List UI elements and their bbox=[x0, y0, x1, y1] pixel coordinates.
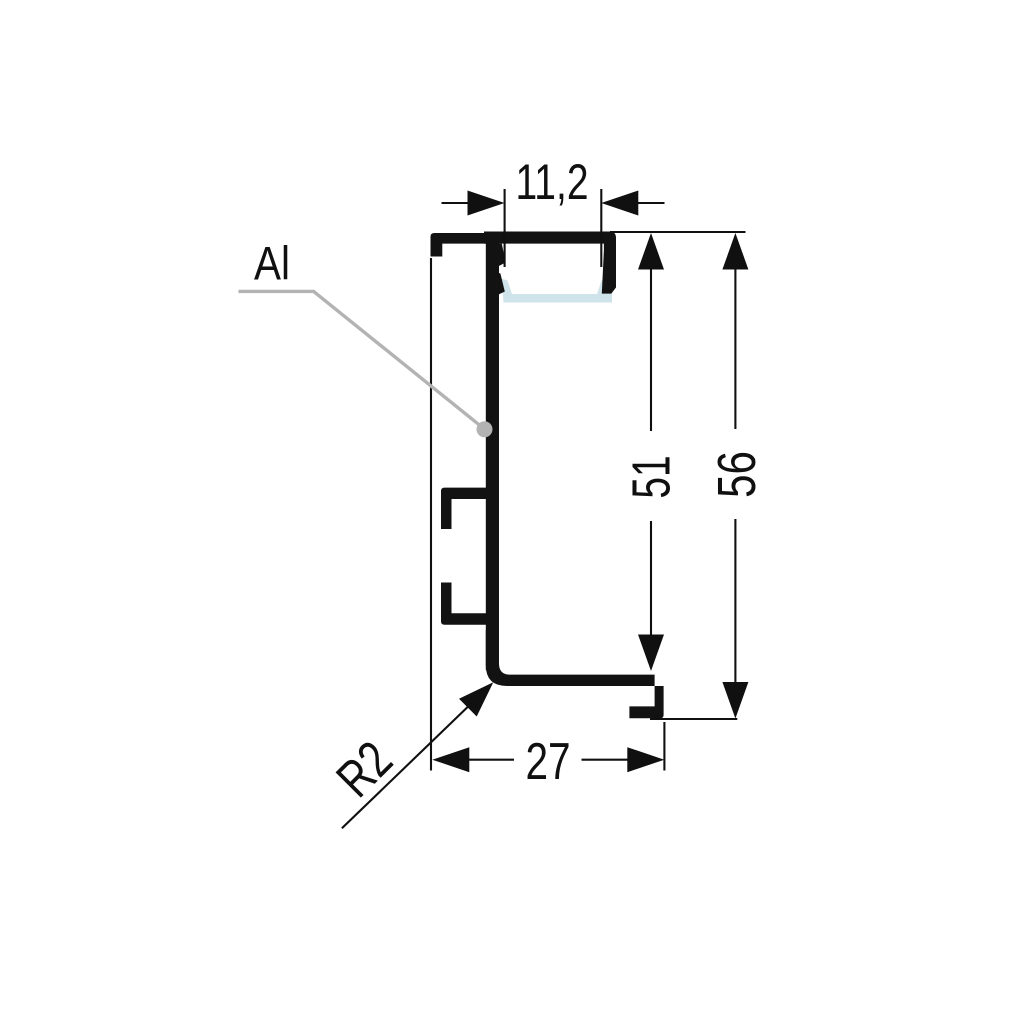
svg-text:27: 27 bbox=[525, 732, 570, 790]
dimension 56 vertical line bbox=[734, 236, 736, 429]
dimension 56 up arrow bbox=[722, 233, 748, 270]
radius leader arrow bbox=[459, 682, 493, 716]
radius label R2 bbox=[325, 730, 403, 808]
dimension 51 vertical line bbox=[650, 236, 652, 431]
extension line left of 11,2 bbox=[504, 189, 506, 267]
radius leader line R2 bbox=[342, 697, 478, 828]
profile: left slot lip upper wedge bbox=[495, 244, 506, 267]
diffuser (light blue cover plate) bbox=[501, 279, 612, 303]
profile: top-left hook and thin top flange bbox=[431, 233, 488, 257]
profile: left main wall bbox=[486, 232, 499, 670]
top extension line for 51 and 56 bbox=[610, 231, 746, 233]
dimension 27 right arrow bbox=[582, 759, 629, 761]
bottom-right extension line for 56 bbox=[650, 718, 737, 720]
dimension 11,2 left arrow bbox=[442, 202, 471, 204]
profile: left slot lip lower wedge bbox=[495, 272, 505, 296]
svg-text:11,2: 11,2 bbox=[516, 153, 589, 210]
material label Al bbox=[254, 238, 290, 291]
dimension text 51 bbox=[620, 455, 681, 498]
profile: bottom bend, base bar and right foot bbox=[486, 630, 664, 718]
dimension 51 up arrow bbox=[638, 233, 664, 270]
dimension text 11,2 bbox=[516, 153, 589, 210]
dimension text 27 bbox=[525, 732, 570, 790]
svg-text:R2: R2 bbox=[325, 730, 403, 808]
dimension 27 left arrow bbox=[468, 759, 514, 761]
dimension 56 down arrow bbox=[722, 682, 748, 719]
profile: lower mounting clip bbox=[441, 583, 489, 625]
svg-text:Al: Al bbox=[254, 238, 290, 291]
svg-text:51: 51 bbox=[620, 455, 681, 498]
profile: upper mounting clip bbox=[441, 488, 489, 529]
dimension 11,2 right arrow bbox=[636, 202, 665, 204]
profile: main top bar and right slot wall bbox=[484, 232, 616, 294]
extension line left of 27 bbox=[430, 258, 432, 771]
material leader dot bbox=[477, 421, 493, 437]
dimension text 56 bbox=[707, 451, 767, 498]
extension line right of 27 bbox=[663, 722, 665, 771]
dimension 51 down arrow bbox=[638, 635, 664, 672]
material leader line bbox=[239, 291, 484, 428]
svg-text:56: 56 bbox=[707, 451, 767, 498]
extension line right of 11,2 bbox=[600, 189, 602, 267]
